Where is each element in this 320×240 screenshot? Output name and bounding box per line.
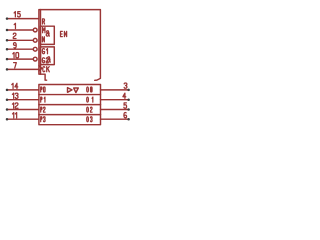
pin 15 wire (R) — [7, 18, 39, 20]
clock edge wedge — [39, 66, 42, 71]
pin 13 wire (P1) — [7, 99, 39, 101]
array row separator 3 — [39, 114, 101, 116]
inner G gate box (G1,G2) — [41, 47, 55, 65]
label CK — [43, 67, 45, 72]
IC U1 control block outline with bracket feet — [39, 10, 101, 81]
label G1 — [42, 49, 44, 54]
pin 2 wire (N) — [7, 39, 33, 41]
pin number label 5 — [124, 103, 127, 108]
label P0 — [41, 87, 42, 92]
output driver triangle — [68, 88, 73, 93]
pin 4 wire (Q1) — [101, 99, 129, 101]
pin number label 6 — [124, 112, 127, 117]
pin number label 15 — [14, 12, 15, 17]
label Q0 — [87, 87, 89, 92]
pin number label 1 — [14, 23, 15, 28]
pin 6 wire (Q3) — [101, 118, 129, 120]
pin 6 end dot — [127, 118, 130, 121]
pin 12 wire (P2) — [7, 109, 39, 111]
pin 9 wire (G1) — [7, 48, 33, 50]
label EN — [61, 31, 63, 36]
array row separator 2 — [39, 104, 101, 106]
pin number label 2 — [13, 33, 16, 38]
pin 3 wire (Q0) — [101, 89, 129, 91]
three-state nabla — [74, 88, 79, 93]
label Q1 — [87, 97, 89, 102]
pin 5 wire (Q2) — [101, 109, 129, 111]
label P3 — [41, 117, 42, 122]
pin 5 end dot — [127, 108, 130, 111]
register array block outline — [39, 85, 101, 125]
pin 7 end dot — [6, 68, 9, 71]
pin 7 wire (CK) — [7, 68, 39, 70]
pin 1 wire (M) — [7, 29, 33, 31]
pin 11 wire (P3) — [7, 118, 39, 120]
pin 2 end dot — [6, 39, 9, 42]
label P1 — [41, 97, 42, 102]
pin number label 7 — [14, 63, 17, 68]
label P2 — [41, 107, 42, 112]
pin number label 4 — [123, 93, 126, 98]
pin 13 end dot — [6, 98, 9, 101]
pin 1 inversion bubble — [33, 28, 37, 32]
pin 1 end dot — [6, 29, 9, 32]
pin number label 9 — [14, 43, 17, 48]
pin 9 inversion bubble — [33, 47, 37, 51]
pin number label 10 — [13, 52, 14, 57]
pin 15 end dot — [6, 17, 9, 20]
pin 10 end dot — [6, 58, 9, 61]
label ampersand of EN gate — [46, 31, 49, 36]
pin 10 inversion bubble — [33, 57, 37, 61]
pin 3 end dot — [127, 89, 130, 92]
pin 2 inversion bubble — [33, 38, 37, 42]
label M — [43, 28, 45, 33]
pin 4 end dot — [127, 98, 130, 101]
pin number label 14 — [12, 83, 13, 88]
pin number label 12 — [12, 103, 13, 108]
array row separator 1 — [39, 94, 101, 96]
pin 12 end dot — [6, 108, 9, 111]
pin 14 wire (P0) — [7, 89, 39, 91]
label Q3 — [87, 117, 89, 122]
label G2 — [42, 58, 44, 63]
control block inner vertical line — [40, 10, 42, 75]
inner EN gate box (M,N) — [41, 26, 55, 44]
pin 9 end dot — [6, 48, 9, 51]
label ampersand of G gate — [47, 57, 50, 62]
pin number label 3 — [124, 83, 127, 88]
pin 10 wire (G2) — [7, 58, 33, 60]
label Q2 — [87, 107, 89, 112]
label N — [42, 37, 44, 42]
pin 14 end dot — [6, 89, 9, 92]
pin 11 end dot — [6, 118, 9, 121]
pin number label 13 — [12, 93, 13, 98]
pin number label 11 — [13, 113, 14, 118]
label R (reset) — [43, 19, 45, 24]
